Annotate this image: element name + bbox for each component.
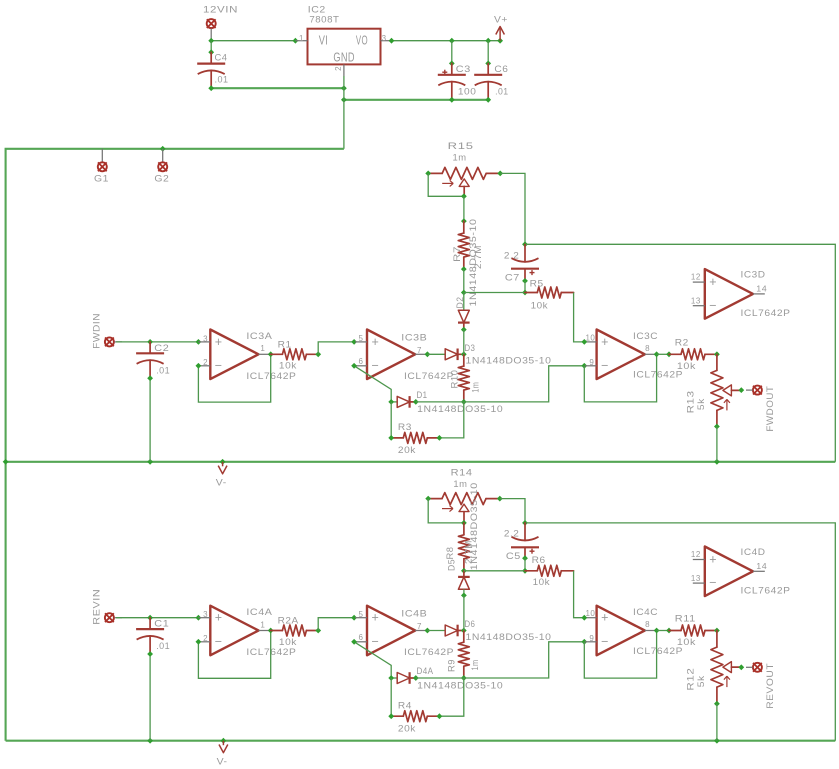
- svg-text:12: 12: [691, 550, 701, 559]
- svg-text:ICL7642P: ICL7642P: [741, 586, 791, 597]
- resistor R7: [452, 221, 484, 272]
- svg-text:D1: D1: [417, 390, 428, 401]
- svg-text:1: 1: [260, 344, 265, 353]
- capacitor C7: [504, 244, 539, 283]
- svg-text:10k: 10k: [677, 361, 696, 372]
- svg-text:6: 6: [358, 357, 363, 366]
- svg-text:5: 5: [358, 610, 363, 619]
- svg-text:1N4148DO35-10: 1N4148DO35-10: [466, 632, 552, 643]
- svg-text:2: 2: [203, 634, 208, 643]
- svg-text:ICL7642P: ICL7642P: [404, 647, 454, 658]
- svg-text:R9: R9: [447, 659, 458, 672]
- svg-text:7808T: 7808T: [309, 15, 339, 26]
- wire IC3C feedback loop: [584, 351, 659, 402]
- diode D3: [427, 343, 551, 367]
- wire 12VIN to IC2 VI: [208, 38, 298, 44]
- resistor R2: [669, 338, 720, 372]
- resistor R8: [445, 523, 475, 574]
- wire C7 to R5 net: [522, 281, 528, 296]
- op-amp IC4D: [691, 547, 791, 597]
- capacitor C4: [197, 52, 228, 88]
- svg-text:R7: R7: [452, 246, 463, 262]
- svg-text:10k: 10k: [279, 637, 297, 648]
- resistor R6: [525, 555, 574, 588]
- op-amp IC3A: [198, 330, 296, 382]
- svg-text:FWDIN: FWDIN: [92, 313, 103, 349]
- svg-text:+: +: [215, 335, 223, 349]
- wire IC2 VO to V+: [389, 38, 503, 44]
- supply symbol V- bottom: [217, 741, 228, 768]
- wire C4 to GND net: [208, 85, 346, 91]
- wire R6 to IC4C pin10: [574, 571, 588, 621]
- diode D5: [447, 482, 480, 630]
- wire R1 to IC3B pin5: [318, 339, 357, 354]
- svg-text:C1: C1: [154, 619, 169, 630]
- svg-text:V-: V-: [217, 756, 228, 767]
- svg-text:R5: R5: [530, 279, 544, 290]
- op-amp IC4A: [198, 606, 296, 658]
- wire IC3C out to R: [657, 351, 672, 357]
- wire R14 wiper loop: [428, 499, 467, 526]
- svg-text:10k: 10k: [533, 577, 551, 588]
- pad G2: [154, 149, 169, 185]
- svg-text:12: 12: [691, 272, 701, 281]
- svg-text:−: −: [601, 634, 609, 648]
- svg-text:13: 13: [691, 574, 701, 583]
- svg-text:D3: D3: [464, 343, 475, 354]
- svg-text:R2A: R2A: [278, 616, 299, 627]
- wire R14 to C5 node: [500, 499, 528, 526]
- svg-text:5k: 5k: [696, 398, 707, 410]
- svg-text:+: +: [709, 552, 717, 566]
- svg-text:C6: C6: [494, 64, 508, 75]
- svg-text:R11: R11: [675, 614, 696, 625]
- wire R15 to R7: [461, 196, 467, 224]
- potentiometer R13: [686, 354, 745, 429]
- svg-text:IC3C: IC3C: [633, 331, 658, 342]
- svg-text:1m: 1m: [453, 479, 467, 490]
- wire mid V- bus: [3, 459, 836, 465]
- svg-text:−: −: [709, 576, 717, 590]
- svg-text:G2: G2: [154, 173, 169, 184]
- wire C5 to R6 net: [522, 558, 528, 574]
- potentiometer R14: [425, 467, 502, 523]
- resistor R4: [388, 678, 464, 734]
- svg-text:1m: 1m: [453, 152, 467, 163]
- svg-text:+: +: [372, 335, 380, 349]
- svg-text:R2: R2: [675, 338, 689, 349]
- wire IC4C out to R: [657, 628, 672, 634]
- svg-text:3: 3: [382, 34, 387, 43]
- svg-text:FWDOUT: FWDOUT: [765, 386, 776, 432]
- svg-text:GND: GND: [333, 50, 355, 64]
- resistor R9: [447, 631, 481, 681]
- wire IC4A feedback loop: [196, 628, 274, 679]
- wire V+ to C3: [449, 41, 455, 67]
- diode D2: [455, 219, 479, 355]
- svg-text:R4: R4: [398, 700, 412, 711]
- svg-text:REVIN: REVIN: [92, 589, 103, 625]
- svg-text:7: 7: [417, 346, 422, 355]
- op-amp IC4B: [355, 606, 454, 658]
- svg-text:+: +: [372, 611, 380, 625]
- wire C5 node to right edge: [525, 523, 835, 741]
- pad FWDOUT: [746, 386, 776, 432]
- svg-text:1m: 1m: [470, 382, 481, 393]
- wire IC3A feedback loop: [196, 351, 274, 402]
- svg-text:3: 3: [203, 610, 208, 619]
- svg-text:IC4C: IC4C: [633, 607, 658, 618]
- wire IC2 GND down: [343, 76, 345, 149]
- svg-text:3: 3: [203, 334, 208, 343]
- wire R2A to IC4B pin5: [318, 615, 357, 631]
- wire R5 to IC3C pin10: [574, 293, 588, 345]
- wire D5 node to R6: [464, 570, 525, 572]
- svg-text:1m: 1m: [470, 660, 481, 671]
- pad G1: [94, 149, 109, 185]
- svg-text:14: 14: [756, 285, 767, 294]
- svg-text:−: −: [601, 358, 609, 372]
- svg-text:100: 100: [458, 87, 477, 98]
- wire R7 to D2 node: [461, 269, 467, 295]
- svg-text:−: −: [215, 358, 223, 372]
- svg-text:10: 10: [585, 333, 595, 342]
- resistor R5: [525, 279, 574, 312]
- wire C7 node to right edge: [525, 244, 835, 461]
- svg-text:V-: V-: [216, 477, 227, 488]
- svg-text:D2: D2: [455, 297, 466, 309]
- pad FWDIN: [92, 313, 123, 349]
- svg-text:R15: R15: [448, 141, 474, 152]
- supply symbol V+: [494, 15, 508, 41]
- svg-text:ICL7642P: ICL7642P: [741, 308, 791, 319]
- capacitor C3: [438, 63, 477, 99]
- svg-text:−: −: [372, 634, 380, 648]
- capacitor C5: [504, 523, 539, 562]
- svg-text:G1: G1: [94, 173, 109, 184]
- svg-text:−: −: [215, 634, 223, 648]
- svg-text:ICL7642P: ICL7642P: [633, 646, 683, 657]
- svg-text:+: +: [601, 611, 609, 625]
- svg-text:9: 9: [589, 634, 594, 643]
- svg-text:10k: 10k: [677, 637, 696, 648]
- svg-text:IC3B: IC3B: [401, 332, 427, 343]
- svg-text:1: 1: [260, 620, 265, 629]
- wire IC3B pin6 diagonal: [351, 351, 430, 402]
- svg-text:12VIN: 12VIN: [203, 5, 238, 16]
- svg-text:5k: 5k: [696, 675, 707, 687]
- svg-text:1N4148DO35-10: 1N4148DO35-10: [468, 219, 479, 307]
- svg-text:2: 2: [334, 66, 343, 71]
- svg-text:ICL7642P: ICL7642P: [246, 371, 296, 382]
- svg-text:1N4148DO35-10: 1N4148DO35-10: [417, 680, 503, 691]
- svg-text:C3: C3: [456, 64, 471, 75]
- capacitor C1: [136, 618, 170, 654]
- svg-text:1: 1: [299, 34, 304, 43]
- svg-text:V+: V+: [494, 15, 508, 26]
- resistor R3: [388, 402, 464, 456]
- op-amp IC3B: [355, 330, 454, 382]
- svg-text:R8: R8: [445, 547, 456, 560]
- op-amp IC3C: [585, 330, 683, 381]
- wire V+ to C6: [485, 41, 491, 67]
- wire REVIN to IC4A pin3: [116, 615, 201, 621]
- voltage regulator IC2 7808T: [295, 4, 391, 76]
- diode D1: [388, 390, 503, 415]
- svg-text:6: 6: [358, 633, 363, 642]
- svg-text:7: 7: [417, 622, 422, 631]
- svg-text:ICL7642P: ICL7642P: [246, 647, 296, 658]
- capacitor C2: [136, 342, 170, 378]
- resistor R11: [669, 614, 720, 648]
- potentiometer R15: [425, 141, 503, 196]
- svg-text:2.2: 2.2: [504, 251, 520, 262]
- svg-text:2: 2: [203, 358, 208, 367]
- svg-text:C4: C4: [215, 53, 228, 64]
- svg-text:+: +: [709, 275, 717, 289]
- svg-text:+: +: [215, 611, 223, 625]
- wire IC4C feedback loop: [584, 628, 659, 679]
- wire C1 to V- bus: [147, 651, 153, 741]
- svg-text:.01: .01: [495, 87, 509, 98]
- wire R15 to C7 node: [500, 173, 528, 247]
- svg-text:D6: D6: [464, 619, 475, 630]
- pad 12VIN: [203, 5, 238, 41]
- svg-text:C2: C2: [154, 343, 169, 354]
- svg-text:.01: .01: [215, 75, 229, 86]
- wire IC4B pin6 diagonal: [351, 628, 430, 678]
- diode D4A: [388, 666, 503, 691]
- svg-text:R10: R10: [450, 370, 461, 389]
- svg-text:14: 14: [756, 562, 767, 571]
- svg-text:R14: R14: [451, 467, 473, 478]
- diode D6: [427, 619, 551, 643]
- resistor R2A: [271, 616, 321, 648]
- svg-text:IC3D: IC3D: [741, 270, 766, 281]
- svg-text:IC3A: IC3A: [246, 331, 272, 342]
- svg-text:20k: 20k: [398, 723, 416, 734]
- svg-text:10k: 10k: [531, 300, 549, 311]
- pad REVOUT: [746, 663, 776, 709]
- svg-text:C7: C7: [505, 272, 520, 283]
- svg-text:20k: 20k: [398, 445, 416, 456]
- svg-text:C5: C5: [506, 551, 521, 562]
- wire D1 node to IC3C pin9: [464, 363, 587, 402]
- svg-text:−: −: [709, 298, 717, 312]
- op-amp IC3D: [691, 269, 791, 319]
- supply symbol V- mid: [216, 462, 227, 489]
- svg-text:+: +: [601, 335, 609, 349]
- svg-text:VO: VO: [356, 33, 368, 47]
- potentiometer R12: [686, 631, 745, 707]
- svg-text:R6: R6: [532, 555, 546, 566]
- svg-text:13: 13: [691, 297, 701, 306]
- wire R15 wiper loop: [428, 173, 467, 199]
- svg-text:VI: VI: [319, 33, 329, 47]
- svg-text:IC4D: IC4D: [741, 547, 766, 558]
- resistor R10: [450, 354, 482, 405]
- wire R12 to V- bus: [716, 704, 718, 741]
- svg-text:5: 5: [358, 334, 363, 343]
- svg-text:2.2: 2.2: [504, 528, 520, 539]
- wire 12VIN to C4: [208, 41, 214, 55]
- svg-text:D5: D5: [447, 559, 458, 571]
- svg-text:9: 9: [589, 358, 594, 367]
- wire D4A node to IC4C pin9: [464, 639, 587, 678]
- svg-text:10: 10: [585, 609, 595, 618]
- svg-text:REVOUT: REVOUT: [765, 663, 776, 709]
- svg-text:IC4B: IC4B: [401, 609, 427, 620]
- svg-text:1N4148DO35-10: 1N4148DO35-10: [466, 356, 552, 367]
- wire GND net C3 C6: [341, 97, 491, 103]
- svg-text:1N4148DO35-10: 1N4148DO35-10: [417, 404, 503, 415]
- svg-text:R1: R1: [278, 339, 292, 350]
- svg-text:D4A: D4A: [417, 666, 434, 677]
- svg-text:8: 8: [645, 344, 650, 353]
- svg-text:8: 8: [645, 620, 650, 629]
- wire D2 node to R5: [464, 292, 525, 294]
- svg-text:.01: .01: [156, 365, 170, 376]
- svg-text:10k: 10k: [279, 361, 297, 372]
- svg-text:.01: .01: [156, 641, 170, 652]
- wire R13 to V- bus: [716, 427, 718, 462]
- wire bottom V- bus: [6, 738, 836, 744]
- svg-text:ICL7642P: ICL7642P: [633, 370, 683, 381]
- svg-text:−: −: [372, 358, 380, 372]
- svg-text:R3: R3: [398, 422, 412, 433]
- resistor R1: [271, 339, 321, 371]
- capacitor C6: [474, 63, 508, 99]
- svg-text:IC4A: IC4A: [246, 607, 272, 618]
- op-amp IC4C: [585, 606, 683, 657]
- wire top ground bus: [6, 146, 344, 741]
- wire C2 to V- bus: [147, 375, 153, 462]
- wire FWDIN to IC3A pin3: [116, 339, 201, 345]
- pad REVIN: [92, 589, 123, 625]
- svg-text:1N4148DO35-10: 1N4148DO35-10: [469, 482, 480, 570]
- svg-text:ICL7642P: ICL7642P: [404, 371, 454, 382]
